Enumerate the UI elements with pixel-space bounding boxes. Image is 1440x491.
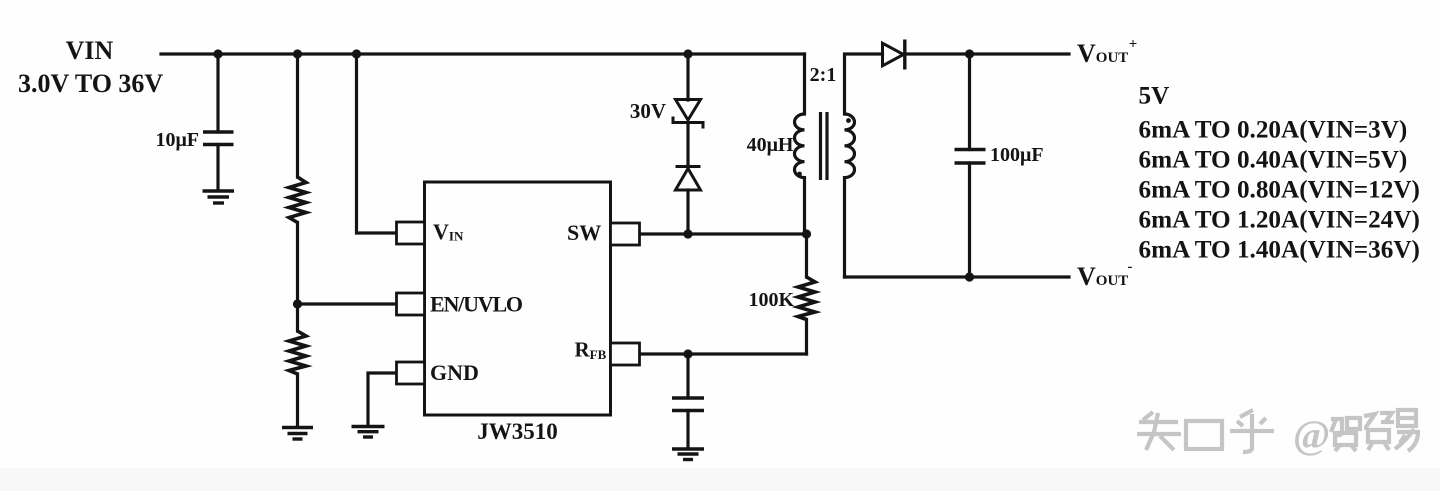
wire VIN pin drop [357, 54, 397, 233]
wire 100K to RFB line [805, 320, 808, 355]
capacitor C3 100uF plates [955, 150, 986, 164]
diode D1 zener 30V triangle [676, 100, 701, 121]
wire C1 branch top [216, 54, 219, 132]
svg-text:100μF: 100μF [990, 144, 1044, 166]
watermark char he [1331, 419, 1342, 435]
transformer T1 secondary winding [845, 114, 855, 178]
ground under C1 [203, 191, 235, 203]
diode D1 zener bar [673, 117, 703, 129]
wire SW line [640, 232, 807, 235]
wire secondary bottom [843, 178, 846, 277]
node EN junction [293, 299, 302, 308]
wire SW node to 100K [805, 234, 808, 277]
wire top VIN rail [161, 52, 805, 55]
node top rail zener [683, 49, 692, 58]
node VOUT+ C3 [965, 49, 974, 58]
svg-text:SW: SW [567, 220, 601, 245]
node RFB C2 [683, 349, 692, 358]
wire secondary top [845, 54, 883, 114]
wire diode D3 to VOUT+ [905, 52, 1070, 55]
wire D2 to SW line [686, 190, 689, 234]
node top rail C1 [213, 49, 222, 58]
watermark zhihu [1137, 410, 1274, 452]
pin VIN box [397, 222, 425, 244]
watermark char zhi box [1186, 421, 1222, 449]
node SW primary [802, 229, 811, 238]
watermark char yi [1398, 410, 1416, 426]
node dots [213, 49, 974, 358]
wire R1 top drop [296, 54, 299, 177]
wire R1 to EN node [296, 223, 299, 305]
wire EN node to R2 [296, 304, 299, 331]
ground under C2 [672, 449, 704, 460]
svg-text:JW3510: JW3510 [477, 419, 558, 444]
svg-text:6mA TO 1.20A(VIN=24V): 6mA TO 1.20A(VIN=24V) [1139, 207, 1420, 234]
wire zener branch top [686, 54, 689, 100]
ground under R2 [282, 428, 313, 440]
diode D3 cathode bar [903, 40, 906, 70]
capacitor C1 10uF plates [203, 132, 234, 145]
svg-text:40μH: 40μH [747, 134, 794, 156]
transformer T1 primary winding [794, 114, 804, 178]
wire C2 to ground [686, 411, 689, 449]
svg-text:6mA TO 0.80A(VIN=12V): 6mA TO 0.80A(VIN=12V) [1139, 177, 1420, 204]
diode D2 bar [676, 165, 701, 168]
IC U1 JW3510 body [425, 182, 611, 415]
wire C2 branch [686, 354, 689, 398]
node SW zener [683, 229, 692, 238]
wire C3 bottom branch [968, 163, 971, 277]
svg-text:@: @ [1293, 412, 1330, 457]
svg-text:VIN: VIN [66, 36, 114, 65]
svg-text:2:1: 2:1 [810, 64, 837, 86]
svg-text:GND: GND [430, 360, 479, 385]
node VOUT- C3 [965, 272, 974, 281]
svg-text:6mA TO 0.40A(VIN=5V): 6mA TO 0.40A(VIN=5V) [1139, 147, 1408, 174]
wire R2 to ground [296, 374, 299, 427]
wire RFB line [640, 352, 807, 355]
node top rail VIN drop [352, 49, 361, 58]
svg-text:5V: 5V [1139, 83, 1170, 110]
wire between zener and diode D2 [686, 123, 689, 167]
wire C1 to ground [216, 145, 219, 191]
capacitor C2 plates [672, 398, 704, 411]
wire C3 top branch [968, 54, 971, 150]
svg-text:6mA TO 1.40A(VIN=36V): 6mA TO 1.40A(VIN=36V) [1139, 237, 1420, 264]
pin RFB box [611, 343, 640, 365]
svg-text:3.0V TO 36V: 3.0V TO 36V [18, 69, 163, 98]
diode D3 triangle [883, 43, 904, 66]
pin EN/UVLO box [397, 293, 425, 315]
svg-text:30V: 30V [630, 99, 666, 123]
watermark char mao [1364, 414, 1375, 428]
resistor R2 [289, 331, 306, 374]
svg-text:EN/UVLO: EN/UVLO [430, 292, 523, 317]
wire VOUT- rail [845, 275, 1070, 278]
watermark char zhi left [1143, 412, 1153, 420]
transformer phase dot secondary [846, 118, 851, 123]
bottom gray strip [0, 468, 1440, 491]
svg-text:10μF: 10μF [155, 129, 199, 151]
wire EN/UVLO horizontal [298, 302, 397, 305]
wire primary top drop [803, 54, 806, 114]
resistor R3 100K [798, 277, 815, 320]
svg-text:6mA TO 0.20A(VIN=3V): 6mA TO 0.20A(VIN=3V) [1139, 117, 1408, 144]
wire primary bottom [803, 178, 806, 234]
wire GND pin to ground [368, 373, 397, 426]
pin SW box [611, 223, 640, 245]
pin GND box [397, 362, 425, 384]
ground for GND pin [352, 427, 385, 438]
transformer phase dot primary [797, 172, 802, 177]
node top rail R1 [293, 49, 302, 58]
diode D2 triangle [676, 169, 701, 191]
watermark char hu [1240, 410, 1253, 417]
resistor R1 [289, 177, 306, 223]
svg-text:100K: 100K [748, 289, 794, 311]
transformer T1 core [821, 112, 828, 180]
